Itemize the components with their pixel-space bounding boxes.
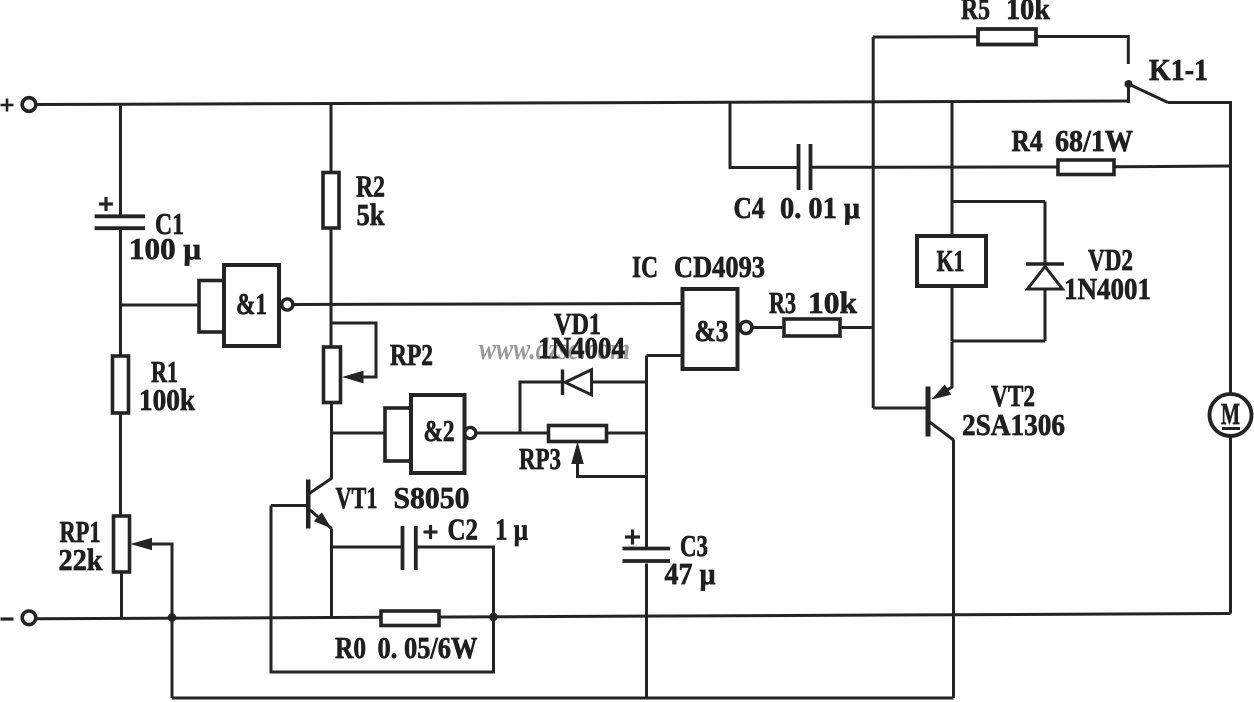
svg-text:2SA1306: 2SA1306 <box>962 407 1065 442</box>
node RP3 wiper arrow <box>571 442 584 465</box>
transistor VT2 base bar <box>926 387 931 437</box>
svg-text:47 μ: 47 μ <box>665 556 716 591</box>
svg-text:R5: R5 <box>961 0 990 26</box>
wire C1 branch from top rail <box>119 104 122 216</box>
node junction dot left <box>168 613 177 622</box>
svg-text:1N4004: 1N4004 <box>538 330 625 365</box>
node gate &1 output bubble <box>282 299 293 310</box>
diode VD2 cathode bar <box>1026 262 1064 265</box>
svg-text:M: M <box>1221 396 1240 431</box>
svg-text:R4: R4 <box>1012 123 1043 158</box>
svg-text:1 μ: 1 μ <box>495 512 528 547</box>
wire RP2 to VT1 collector <box>330 403 333 479</box>
wire bottom rail <box>37 614 1231 619</box>
switch K1-1 arm <box>1129 84 1169 103</box>
wire input to gate &2 <box>331 432 385 435</box>
svg-text:IC: IC <box>632 249 658 284</box>
node positive terminal circle <box>22 98 36 112</box>
capacitor C3 <box>623 549 671 562</box>
wire motor bottom lead <box>1229 437 1232 614</box>
svg-text:&3: &3 <box>695 313 729 348</box>
wire K1 branch from top rail <box>951 102 954 236</box>
node + (positive supply terminal symbol) <box>1 99 14 112</box>
wire R1 to RP1 <box>119 413 122 516</box>
op-amp gate &2 input stub <box>385 408 411 461</box>
svg-text:C4: C4 <box>734 190 765 225</box>
wire VT1 collector diagonal <box>310 478 332 493</box>
wire lowest return run <box>172 697 954 700</box>
diode VD1 triangle <box>565 370 592 395</box>
svg-text:CD4093: CD4093 <box>674 249 765 284</box>
wire C2 right lead <box>418 547 494 617</box>
op-amp gate &1 input stub <box>199 281 224 333</box>
svg-text:5k: 5k <box>357 197 386 232</box>
svg-text:R3: R3 <box>769 285 796 320</box>
transistor VT1 base bar <box>306 480 311 529</box>
wire C4 to R4 <box>812 166 1058 169</box>
node C3 plus polarity mark <box>625 530 640 545</box>
wire VT2 base <box>873 407 925 410</box>
svg-text:C2: C2 <box>448 512 479 547</box>
wire VT2 collector diagonal <box>929 422 954 441</box>
wire C1 down to R1 <box>119 228 122 357</box>
svg-text:1N4001: 1N4001 <box>1064 271 1151 306</box>
svg-text:S8050: S8050 <box>394 480 470 515</box>
wire R2 to RP2 <box>330 228 333 347</box>
svg-text:10k: 10k <box>808 285 858 320</box>
wire R5 left lead <box>873 35 978 38</box>
wire switch to right vertical <box>1168 103 1231 394</box>
node RP2 wiper arrow <box>342 371 364 384</box>
wire mid vertical node upper <box>645 356 648 549</box>
svg-text:0. 05/6W: 0. 05/6W <box>378 630 478 665</box>
wire RP1 bottom to rail <box>120 572 123 618</box>
wire RP1 wiper to bottom rail <box>151 544 172 618</box>
svg-text:RP3: RP3 <box>519 441 561 476</box>
node C1 plus polarity mark <box>99 197 113 211</box>
wire C4 branch from top rail <box>730 103 797 168</box>
capacitor C2 <box>403 526 416 570</box>
resistor R1 <box>113 356 129 413</box>
wire RP3 wiper return <box>578 462 647 477</box>
wire base vertical R5 to VT2 <box>872 37 875 408</box>
svg-text:0. 01 μ: 0. 01 μ <box>780 190 860 225</box>
resistor R5 <box>978 29 1036 45</box>
wire base sense loop <box>271 506 494 673</box>
resistor R3 <box>784 319 840 336</box>
wire RP2 wiper loop <box>331 323 376 377</box>
node C2 plus polarity mark <box>424 525 438 539</box>
svg-text:K1-1: K1-1 <box>1149 52 1208 87</box>
wire R3 to base vertical <box>840 326 873 329</box>
wire top supply rail <box>36 101 1128 105</box>
node RP1 wiper arrow <box>131 538 153 550</box>
capacitor C4 <box>799 144 811 190</box>
potentiometer RP2 body <box>324 347 341 403</box>
svg-text:RP2: RP2 <box>390 337 433 372</box>
svg-text:VT1: VT1 <box>336 480 378 515</box>
wire R4 to right vertical <box>1114 165 1231 169</box>
wire VD2 bottom branch <box>952 340 1045 343</box>
wire input to gate U1 <box>121 304 200 307</box>
svg-text:100k: 100k <box>139 382 196 417</box>
resistor R4 <box>1058 160 1114 175</box>
svg-text:10k: 10k <box>1006 0 1051 26</box>
wire R2 branch from top rail <box>330 103 333 173</box>
svg-text:100 μ: 100 μ <box>129 231 201 266</box>
wire VD1 left branch up <box>520 382 561 433</box>
wire gate &3 output to R3 <box>752 326 784 329</box>
motor M circle <box>1210 394 1252 436</box>
wire mid vertical node lower <box>645 564 648 699</box>
wire gate &2 output to RP3 <box>476 432 548 435</box>
wire rail end upturn to switch pivot <box>1127 84 1130 103</box>
node junction dot right <box>489 613 498 622</box>
node negative terminal circle <box>22 611 36 625</box>
op-amp gate &2 body U2 <box>411 395 465 473</box>
diode VD1 cathode bar <box>561 370 564 396</box>
node VT1 emitter arrow <box>314 512 332 528</box>
switch K1-1 pivot dot <box>1125 80 1133 88</box>
potentiometer RP1 body <box>114 516 130 572</box>
wire RP3 right terminal <box>607 432 647 435</box>
wire VT2 collector down <box>952 440 955 699</box>
op-amp gate &1 body U1 <box>224 265 279 346</box>
wire VD2 lower lead <box>1044 289 1047 341</box>
wire VT1 emitter diagonal <box>310 510 332 529</box>
node VT2 emitter arrow <box>932 385 952 400</box>
wire K1 bottom <box>951 286 954 341</box>
node gate &3 output bubble <box>740 322 752 334</box>
wire VT2 emitter from K1 junction <box>940 342 952 395</box>
svg-text:&1: &1 <box>236 286 267 321</box>
resistor R0 <box>381 611 439 626</box>
node minus terminal mark <box>1 617 14 620</box>
svg-text:&2: &2 <box>424 413 455 448</box>
diode VD2 triangle <box>1028 267 1063 290</box>
capacitor C1 <box>95 216 145 228</box>
wire C2 left lead <box>332 546 403 549</box>
wire gate &1 output to gate &3 input <box>293 304 683 305</box>
wire VD2 top branch <box>952 200 1045 203</box>
svg-text:68/1W: 68/1W <box>1055 123 1133 158</box>
node gate &2 output bubble <box>465 427 476 438</box>
svg-text:K1: K1 <box>937 243 965 278</box>
svg-text:R0: R0 <box>335 630 366 665</box>
wire R5 right lead to switch <box>1036 37 1128 65</box>
wire drop below left junction <box>171 618 174 699</box>
node M underline <box>1222 427 1240 430</box>
svg-text:22k: 22k <box>59 542 104 577</box>
wire VT1 emitter down to rail <box>330 529 333 619</box>
wire VD2 upper lead <box>1044 202 1047 265</box>
relay K1 box <box>917 236 986 286</box>
wire VT1 base lead <box>271 504 306 507</box>
potentiometer RP3 body <box>549 426 607 442</box>
wire VD1 anode to mid vertical <box>592 381 647 384</box>
wire gate &3 lower input <box>647 354 684 357</box>
op-amp gate &3 body U3 <box>683 289 738 369</box>
resistor R2 <box>323 173 339 229</box>
